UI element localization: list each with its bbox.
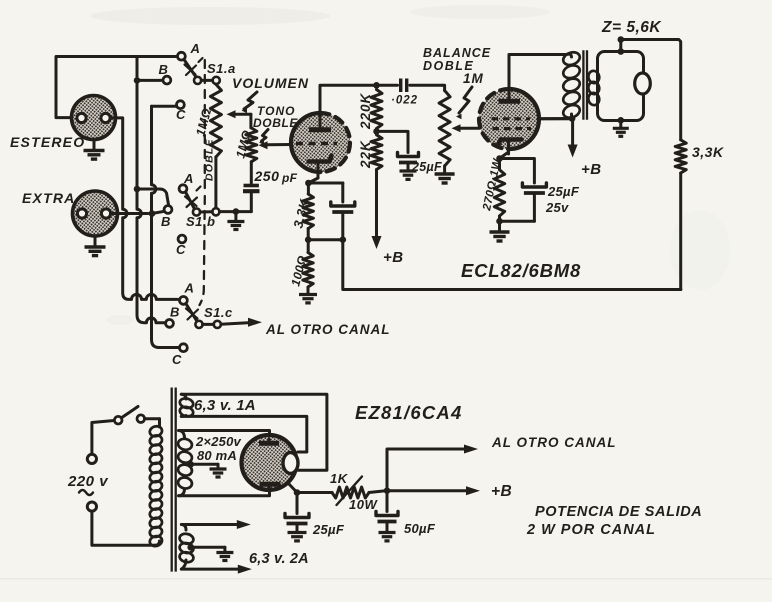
label 1M of tono pot xyxy=(233,129,254,160)
svg-text:+B: +B xyxy=(491,483,512,500)
winding 2x250v HT with leads xyxy=(177,431,269,496)
switch S1.b contact B xyxy=(161,206,172,229)
svg-text:25µF: 25µF xyxy=(312,522,345,537)
label ESTEREO xyxy=(10,134,85,150)
svg-text:250: 250 xyxy=(254,168,280,184)
svg-text:C: C xyxy=(172,352,182,367)
wire EXTRA output to junction x152 xyxy=(111,210,156,217)
resistor R3 3,3K cathode xyxy=(303,183,313,240)
switch S1.c pole contacts xyxy=(195,321,221,328)
label 25uF 25v xyxy=(545,184,580,215)
label 3,3K right xyxy=(692,144,724,160)
connector J2 EXTRA xyxy=(73,191,118,236)
label 25uF bottom xyxy=(312,522,345,537)
tube V1a triode of ECL82 xyxy=(291,113,350,178)
switch S1.b pole contacts xyxy=(193,208,220,215)
transformer T2 primary winding xyxy=(149,419,164,548)
label S1.c xyxy=(204,305,233,320)
wire cathode bottom junction xyxy=(305,236,346,243)
node B+ junction xyxy=(384,487,391,494)
label AL OTRO CANAL bottom xyxy=(491,435,617,450)
svg-text:S1.b: S1.b xyxy=(186,214,215,229)
capacitor C1 250pF xyxy=(243,168,298,212)
wire right rail down to feedback line xyxy=(679,173,682,290)
ground of 100ohm xyxy=(299,295,317,303)
wire top from ESTEREO to S1.a contact A xyxy=(56,57,177,118)
capacitor C4 25uF decoupling xyxy=(398,153,419,171)
switch S1.a contact A xyxy=(178,41,200,60)
potentiometer R1 VOLUMEN 1M xyxy=(210,84,251,208)
wire bus B (x=137) from top wire down to S1.c B xyxy=(137,57,166,323)
label 1K 10W xyxy=(330,471,378,512)
label EXTRA xyxy=(22,190,75,206)
wire AL OTRO CANAL with arrow xyxy=(221,318,391,337)
label S1.b xyxy=(186,214,215,229)
switch S1.c contact A xyxy=(180,281,194,305)
wire anode V1a up to coupling node xyxy=(320,85,374,113)
label Z=5,6K xyxy=(601,19,662,36)
svg-text:6,3 v. 1A: 6,3 v. 1A xyxy=(194,397,256,414)
potentiometer R2 TONO DOBLE 1M xyxy=(246,114,257,183)
switch S1.b arm with X xyxy=(185,187,201,210)
label 50uF xyxy=(404,521,436,536)
node coupling junction xyxy=(373,82,380,89)
switch S1.c arm with X xyxy=(186,304,198,321)
wire primary bottom to screen node xyxy=(539,117,572,120)
wire bus from EXTRA right pin down to S1.c A (x=122) xyxy=(111,118,178,300)
terminals 220v input xyxy=(87,454,96,511)
svg-text:A: A xyxy=(190,41,200,56)
label POTENCIA DE SALIDA xyxy=(526,504,702,538)
wire grid of V1a with arrow to tono wiper xyxy=(259,141,293,149)
svg-text:pF: pF xyxy=(281,171,298,185)
wire cathode V1a to junction xyxy=(305,178,318,186)
svg-text:B: B xyxy=(159,62,168,77)
winding 6,3v 1A with leads xyxy=(179,394,327,470)
resistor R10 1K 10W xyxy=(297,477,384,506)
label 6,3v 1A xyxy=(194,397,256,414)
wire +B drop from primary xyxy=(568,119,578,158)
svg-text:A: A xyxy=(184,281,194,296)
wire branch to C5 xyxy=(500,159,535,184)
wire Z=5,6K to right rail xyxy=(621,40,681,140)
label ECL82/6BM8 xyxy=(461,260,581,281)
ground of C7 xyxy=(379,533,396,541)
wire AL OTRO CANAL bottom xyxy=(387,445,478,491)
svg-text:POTENCIA DE SALIDA: POTENCIA DE SALIDA xyxy=(535,504,702,520)
svg-text:AL OTRO CANAL: AL OTRO CANAL xyxy=(265,322,391,337)
wire screen V1b to primary bottom xyxy=(539,117,572,120)
ground of EXTRA xyxy=(85,236,106,256)
svg-text:B: B xyxy=(170,305,179,320)
wire branch to 25uF xyxy=(377,131,409,152)
wire cathode V1b to junction xyxy=(496,152,508,162)
svg-text:25µF: 25µF xyxy=(411,160,442,174)
ground of balance pot xyxy=(435,174,455,183)
capacitor C5 25uF 25v xyxy=(500,183,547,221)
resistor R4 100ohm xyxy=(303,240,313,293)
svg-text:EZ81/6CA4: EZ81/6CA4 xyxy=(355,402,462,423)
pointer from TONO to wiper xyxy=(259,130,268,146)
wire bottom of volume/tono with ground xyxy=(220,208,252,229)
label 100ohm vertical xyxy=(288,254,309,288)
speaker LS1 with secondary xyxy=(587,52,650,121)
dashed mechanical link of S1 (DOBLE) xyxy=(200,60,216,305)
label 220K vertical xyxy=(358,92,373,130)
svg-text:+B: +B xyxy=(581,161,602,178)
svg-text:22K: 22K xyxy=(358,140,373,169)
svg-text:+B: +B xyxy=(383,249,404,266)
wire from junction x152 to S1.b contact B xyxy=(152,211,164,213)
switch S1.a arm with X xyxy=(184,58,203,77)
capacitor C3 .022 coupling xyxy=(374,79,442,93)
svg-text:S1.a: S1.a xyxy=(207,61,236,76)
switch S1.a pole contacts xyxy=(194,77,220,84)
label TONO DOBLE xyxy=(253,104,298,130)
capacitor C2 cathode bypass xyxy=(331,202,355,240)
connector J1 ESTEREO xyxy=(72,96,116,140)
svg-text:3,3K: 3,3K xyxy=(692,144,724,160)
transformer T1 core xyxy=(583,50,587,120)
wire feedback from cathode to 3,3K right xyxy=(343,240,681,290)
ground of C6 xyxy=(288,533,307,541)
wire bus C (x=151.5) from S1.a C down to S1.c C xyxy=(152,106,180,347)
tube V1b pentode of ECL82 xyxy=(479,89,539,154)
transformer T1 primary winding xyxy=(561,50,581,120)
label .022 xyxy=(391,95,418,107)
svg-text:50µF: 50µF xyxy=(404,521,436,536)
svg-text:6,3 v. 2A: 6,3 v. 2A xyxy=(249,551,309,567)
svg-text:BALANCE: BALANCE xyxy=(423,46,491,60)
svg-text:ESTEREO: ESTEREO xyxy=(10,134,85,150)
capacitor C6 25uF xyxy=(285,493,309,532)
wire branch y189 to S1.b contact B xyxy=(134,186,169,205)
svg-text:2 W POR CANAL: 2 W POR CANAL xyxy=(526,522,656,538)
svg-text:AL OTRO CANAL: AL OTRO CANAL xyxy=(491,435,617,450)
svg-text:25µF: 25µF xyxy=(547,184,580,199)
switch S1.b contact C xyxy=(176,235,186,257)
tube V2 EZ81/6CA4 xyxy=(242,435,299,490)
wire speaker top lead xyxy=(618,36,625,55)
switch S1.c contact C xyxy=(172,344,187,367)
svg-text:C: C xyxy=(176,242,186,257)
svg-text:S1.c: S1.c xyxy=(204,305,233,320)
label 2x250v 80mA xyxy=(195,434,242,463)
svg-text:ECL82/6BM8: ECL82/6BM8 xyxy=(461,260,581,281)
wire from S1.a contact C xyxy=(152,105,178,108)
node primary bottom xyxy=(569,115,576,122)
wire cathode V2 to HT node xyxy=(289,484,301,496)
svg-text:220K: 220K xyxy=(358,92,373,130)
svg-text:DOBLE: DOBLE xyxy=(253,116,298,130)
label EZ81/6CA4 xyxy=(355,402,462,423)
wire mains bottom xyxy=(92,511,155,545)
switch S1.a contact C xyxy=(176,101,186,122)
label 1M of volume pot xyxy=(193,107,214,138)
svg-text:C: C xyxy=(176,107,186,122)
switch S1.a contact B xyxy=(159,62,171,84)
transformer T2 core xyxy=(172,388,176,572)
label 22K vertical xyxy=(358,140,373,169)
label VOLUMEN xyxy=(232,75,309,91)
capacitor C7 50uF xyxy=(376,491,398,532)
pointer lightning from 1M to balance wiper xyxy=(456,87,472,119)
wire anode V1b to OT primary xyxy=(509,55,566,90)
svg-text:VOLUMEN: VOLUMEN xyxy=(232,75,309,91)
resistor R8 270ohm 1W xyxy=(494,159,504,225)
center tap HT with ground xyxy=(187,461,226,477)
ground of ESTEREO xyxy=(84,140,105,160)
pointer from VOLUMEN to wiper xyxy=(242,92,258,113)
svg-text:B: B xyxy=(161,214,170,229)
svg-text:25v: 25v xyxy=(545,200,569,215)
switch S1.c contact B xyxy=(166,305,180,328)
switch S2 mains xyxy=(92,407,160,455)
label 3,3K vertical xyxy=(290,196,312,229)
svg-text:80 mA: 80 mA xyxy=(197,448,237,463)
switch S1.b contact A xyxy=(179,171,193,193)
ground of C4 xyxy=(400,171,417,179)
svg-text:EXTRA: EXTRA xyxy=(22,190,75,206)
svg-text:1M: 1M xyxy=(463,71,484,86)
svg-text:10W: 10W xyxy=(349,497,378,512)
svg-text:220 v: 220 v xyxy=(67,473,109,490)
potentiometer R7 BALANCE DOBLE 1M xyxy=(439,85,450,172)
label +B right xyxy=(581,161,602,178)
label S1.a xyxy=(207,61,236,76)
wire +B output xyxy=(387,486,480,495)
ground of 270ohm xyxy=(490,221,510,241)
wire +B drop with arrow xyxy=(372,170,382,250)
resistor R9 3,3K feedback xyxy=(675,140,686,173)
svg-text:2×250v: 2×250v xyxy=(195,434,242,449)
wire balance wiper to grid V1b xyxy=(452,124,480,132)
svg-text:Z= 5,6K: Z= 5,6K xyxy=(601,19,662,36)
resistor R5 220K xyxy=(371,90,382,135)
svg-text:A: A xyxy=(183,171,193,186)
winding 6,3v 2A with leads xyxy=(179,520,252,574)
wire branch to S1.a contact B xyxy=(134,77,163,84)
center tap 6,3v 2A with ground xyxy=(187,544,233,561)
label 270ohm 1W vertical xyxy=(481,157,504,213)
resistor R6 22K xyxy=(371,135,382,170)
label 220v xyxy=(67,473,109,495)
label BALANCE DOBLE 1M xyxy=(423,46,491,86)
label +B output xyxy=(491,483,512,500)
svg-text:1K: 1K xyxy=(330,471,349,486)
ground of speaker xyxy=(613,117,629,136)
label +B mid xyxy=(383,249,404,266)
label 6,3v 2A xyxy=(249,551,309,567)
svg-text:·022: ·022 xyxy=(391,95,418,107)
wire cathode junction branch xyxy=(308,183,342,202)
label 25uF xyxy=(411,160,442,174)
